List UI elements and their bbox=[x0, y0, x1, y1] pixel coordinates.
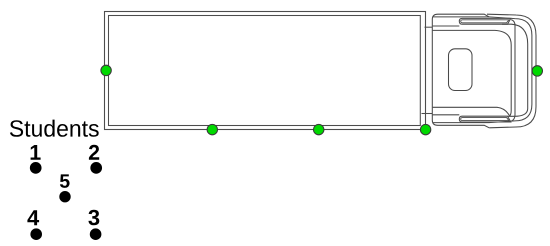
mirror support bottom bbox=[433, 114, 460, 116]
top mirror bar inner bbox=[461, 20, 509, 23]
student 2 bbox=[89, 145, 99, 160]
mirror support top bbox=[433, 25, 460, 27]
cab front outer band line 1 bbox=[487, 14, 536, 128]
trailer inner box bbox=[109, 16, 421, 126]
cab band line 3 bbox=[502, 24, 528, 116]
cab front pillar line bbox=[511, 20, 515, 122]
cab band line 2 bbox=[433, 17, 532, 123]
bottom mirror bar inner bbox=[461, 118, 509, 121]
cab outer outline bbox=[432, 14, 489, 128]
green node bottom 2 bbox=[314, 124, 324, 134]
top mirror bar outer bbox=[459, 18, 511, 24]
student 1 bbox=[31, 145, 41, 160]
student 3 bbox=[88, 210, 99, 226]
windshield body outline bbox=[433, 30, 512, 116]
green node bottom 3 bbox=[420, 124, 430, 134]
green node cab front bbox=[532, 66, 542, 76]
green node left bbox=[101, 65, 111, 75]
windshield bottom line bbox=[433, 107, 510, 116]
bottom mirror bar outer bbox=[459, 116, 511, 122]
hitch bottom bar bbox=[422, 113, 433, 115]
trailer outer box bbox=[105, 12, 426, 130]
hitch top bar bbox=[425, 26, 433, 28]
green node bottom 1 bbox=[207, 124, 217, 134]
student 5 bbox=[60, 174, 70, 188]
Students label bbox=[10, 120, 99, 137]
sunroof bbox=[449, 49, 473, 91]
student 4 bbox=[27, 210, 39, 225]
